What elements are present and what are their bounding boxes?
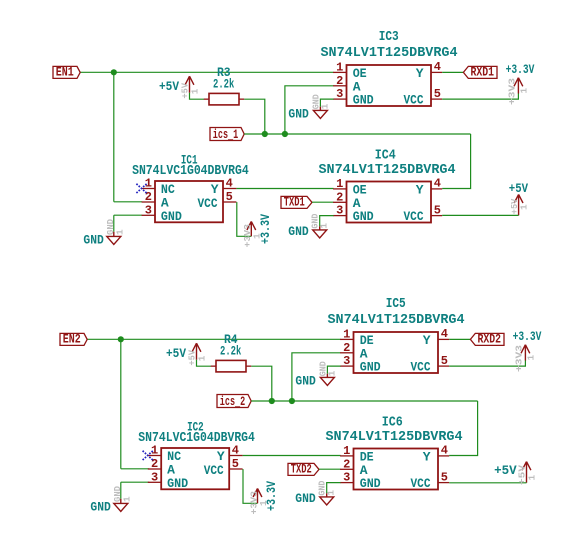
svg-text:IC3: IC3 [379, 30, 399, 45]
svg-text:1: 1 [319, 103, 330, 109]
net label ics_1 [210, 128, 244, 141]
svg-text:VCC: VCC [404, 92, 424, 107]
supply +3.3V at IC2 VCC [243, 469, 258, 503]
svg-text:1: 1 [336, 60, 343, 74]
wire ics down to second buffer Y [449, 401, 477, 456]
svg-text:VCC: VCC [404, 209, 424, 224]
svg-text:GND: GND [295, 491, 315, 506]
svg-text:2: 2 [336, 190, 343, 204]
svg-text:5: 5 [434, 87, 441, 101]
wire EN2 junction to IC pin1 [121, 338, 341, 340]
ground GND below IC6 [327, 483, 341, 494]
node ics junction 2 [289, 398, 295, 404]
svg-text:TXD1: TXD1 [284, 195, 305, 210]
svg-text:Y: Y [423, 449, 431, 464]
svg-text:2: 2 [343, 457, 350, 471]
net flag EN2 [60, 333, 87, 345]
svg-text:3: 3 [343, 354, 350, 368]
wire inverter GND pin3 left [121, 481, 149, 483]
wire +5V to resistor [190, 93, 205, 100]
wire EN1 junction to IC pin1 [114, 71, 334, 73]
svg-text:1: 1 [252, 233, 263, 239]
node ics junction 1 [262, 131, 268, 137]
svg-text:1: 1 [121, 496, 132, 502]
wire ics_1 horizontal [244, 133, 470, 135]
wire resistor to ics net [251, 366, 271, 401]
wire inverter GND pin3 left [114, 214, 142, 216]
wire EN1 vertical down [113, 72, 115, 202]
svg-text:4: 4 [226, 176, 233, 190]
svg-text:EN1: EN1 [56, 65, 74, 80]
svg-text:GND: GND [161, 209, 182, 224]
svg-text:RXD1: RXD1 [471, 65, 495, 80]
svg-text:Y: Y [416, 182, 424, 197]
svg-text:+3.3V: +3.3V [513, 329, 542, 344]
wire ics down to second buffer Y [442, 134, 470, 189]
svg-text:1: 1 [319, 223, 330, 229]
svg-text:4: 4 [441, 444, 448, 458]
svg-text:GND: GND [360, 476, 381, 491]
ground GND below IC5 [327, 366, 340, 374]
svg-text:1: 1 [196, 355, 207, 361]
node EN2 junction [118, 336, 124, 342]
wire resistor to ics net [244, 99, 264, 134]
wire ics to buffer A [292, 353, 341, 401]
svg-text:1: 1 [519, 204, 530, 210]
svg-text:IC5: IC5 [386, 297, 406, 312]
ground GND near IC1 [113, 232, 115, 237]
node ics junction 1 [269, 398, 275, 404]
svg-text:GND: GND [360, 359, 381, 374]
svg-text:5: 5 [434, 203, 441, 217]
svg-text:4: 4 [232, 443, 239, 457]
svg-text:GND: GND [353, 92, 374, 107]
net flag RXD2 [449, 338, 471, 340]
svg-text:TXD2: TXD2 [291, 462, 312, 477]
resistor R4 [216, 360, 246, 372]
svg-text:1: 1 [326, 370, 337, 376]
svg-text:+5V: +5V [509, 181, 528, 196]
svg-text:VCC: VCC [411, 476, 431, 491]
svg-text:5: 5 [226, 190, 233, 204]
svg-text:ics_1: ics_1 [213, 127, 239, 142]
svg-text:VCC: VCC [198, 196, 218, 211]
svg-text:GND: GND [90, 499, 110, 514]
node ics junction 2 [282, 131, 288, 137]
svg-text:4: 4 [434, 177, 441, 191]
svg-text:3: 3 [343, 471, 350, 485]
svg-text:2.2k: 2.2k [220, 344, 242, 359]
svg-text:GND: GND [167, 476, 188, 491]
svg-text:SN74LV1T125DBVRG4: SN74LV1T125DBVRG4 [328, 313, 465, 328]
svg-text:EN2: EN2 [63, 332, 81, 347]
svg-text:IC4: IC4 [375, 149, 396, 164]
node EN1 junction [111, 69, 117, 75]
svg-text:1: 1 [526, 355, 537, 361]
svg-text:+5V: +5V [166, 346, 186, 361]
svg-text:1: 1 [326, 490, 337, 496]
wire inverter Y to buffer OE [236, 188, 333, 190]
svg-text:3: 3 [336, 204, 343, 218]
svg-text:GND: GND [295, 374, 315, 389]
svg-text:2.2k: 2.2k [213, 77, 235, 92]
svg-text:Y: Y [423, 333, 431, 348]
net flag TXD2 [288, 463, 319, 475]
wire TXD1 to buffer A [312, 201, 334, 203]
svg-text:VCC: VCC [204, 463, 224, 478]
wire inverter Y to buffer OE [243, 455, 341, 457]
svg-text:3: 3 [145, 203, 152, 217]
ground GND below IC3 [320, 99, 333, 107]
wire ics to buffer A [285, 86, 334, 134]
net flag TXD1 [281, 196, 312, 208]
wire EN2 flag to junction [87, 338, 121, 340]
wire EN1 flag to junction [80, 71, 114, 73]
svg-text:GND: GND [353, 209, 374, 224]
svg-text:+5V: +5V [494, 463, 517, 478]
svg-text:Y: Y [416, 66, 424, 81]
svg-text:5: 5 [441, 470, 448, 484]
wire ics_2 horizontal [251, 400, 477, 402]
svg-text:+3.3V: +3.3V [506, 62, 535, 77]
resistor R3 [209, 93, 239, 105]
svg-text:1: 1 [519, 88, 530, 94]
svg-text:1: 1 [527, 475, 538, 481]
svg-text:1: 1 [258, 500, 269, 506]
supply +3.3V at IC1 VCC [237, 202, 252, 236]
svg-text:1: 1 [343, 444, 350, 458]
svg-text:5: 5 [232, 457, 239, 471]
svg-text:GND: GND [288, 107, 308, 122]
svg-text:+5V: +5V [159, 79, 179, 94]
ground GND below IC4 [320, 216, 334, 227]
wire +5V to resistor [197, 360, 212, 367]
svg-text:IC6: IC6 [382, 416, 403, 431]
wire EN2 to inverter A [121, 468, 149, 470]
wire TXD2 to buffer A [319, 468, 341, 470]
svg-text:5: 5 [441, 354, 448, 368]
svg-text:3: 3 [151, 470, 158, 484]
net label ics_2 [217, 395, 251, 408]
net flag EN1 [53, 66, 80, 78]
svg-text:GND: GND [288, 224, 308, 239]
svg-text:1: 1 [114, 229, 125, 235]
svg-text:2: 2 [336, 74, 343, 88]
ground GND near IC2 [120, 499, 122, 504]
svg-text:2: 2 [343, 341, 350, 355]
svg-text:1: 1 [343, 327, 350, 341]
svg-text:3: 3 [336, 87, 343, 101]
wire EN2 vertical down [120, 339, 122, 469]
svg-text:1: 1 [336, 177, 343, 191]
svg-text:VCC: VCC [411, 359, 431, 374]
svg-text:GND: GND [83, 232, 103, 247]
svg-text:4: 4 [434, 60, 441, 74]
wire inverter GND down [120, 482, 122, 499]
wire inverter GND down [113, 215, 115, 232]
svg-text:1: 1 [189, 88, 200, 94]
svg-text:+3V3: +3V3 [506, 78, 517, 105]
wire EN1 to inverter A [114, 201, 142, 203]
svg-text:+3V3: +3V3 [513, 345, 524, 372]
svg-text:RXD2: RXD2 [478, 332, 502, 347]
svg-text:4: 4 [441, 327, 448, 341]
net flag RXD1 [442, 71, 464, 73]
svg-text:ics_2: ics_2 [220, 394, 245, 409]
svg-text:SN74LV1T125DBVRG4: SN74LV1T125DBVRG4 [321, 46, 458, 61]
